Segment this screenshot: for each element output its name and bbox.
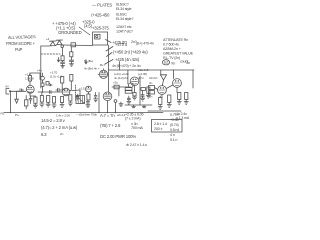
svg-text:+4n: +4n	[37, 69, 42, 73]
ground	[61, 64, 65, 68]
note: all voltages from scope	[6, 34, 50, 52]
svg-text:(4.7)= 2 + 2 mA (u.w): (4.7)= 2 + 2 mA (u.w)	[41, 125, 78, 130]
resistor R8 plate V2	[61, 77, 64, 84]
svg-text:12AT7 etc?: 12AT7 etc?	[116, 30, 133, 34]
wire jack ground drop	[9, 91, 11, 112]
note: bias block	[138, 68, 149, 80]
note: top middle voltages	[52, 21, 82, 35]
svg-text:2n: 2n	[149, 95, 153, 99]
svg-text:6L6GC: 6L6GC	[116, 13, 127, 17]
resistor R6	[47, 96, 50, 103]
svg-text:⊕ 2.47 ± 1.4 u: ⊕ 2.47 ± 1.4 u	[126, 143, 147, 147]
resistor R3 plate load	[29, 76, 32, 81]
wire V3 down	[88, 92, 90, 94]
svg-text:+4: +4	[46, 37, 50, 41]
svg-text:EL34 style: EL34 style	[116, 7, 132, 11]
svg-text:6.3: 6.3	[41, 132, 47, 137]
arrow to box	[106, 47, 113, 52]
svg-text:AZ/MA 2n +: AZ/MA 2n +	[163, 47, 181, 51]
wire B+ vertical left	[40, 46, 42, 88]
note: B+ wire label	[112, 61, 190, 68]
resistor R21	[61, 56, 64, 61]
pentode V5	[103, 92, 112, 101]
wire from loop down	[107, 45, 109, 92]
node dot	[96, 36, 98, 38]
svg-text:Xn: Xn	[171, 62, 175, 66]
svg-text:12AX7 etc: 12AX7 etc	[116, 25, 132, 29]
ground	[33, 103, 37, 108]
ground	[127, 100, 131, 104]
wire to V7	[155, 88, 158, 90]
node junction	[61, 45, 64, 48]
ground	[86, 103, 90, 108]
wire V8 cathode	[176, 87, 178, 92]
wire V4 plate stub	[107, 73, 110, 75]
feedback loop box	[93, 32, 108, 45]
resistor R13 grid stopper	[114, 85, 119, 89]
diode D2	[56, 40, 62, 45]
triode V6a small	[129, 83, 134, 88]
capacitor C21	[69, 57, 73, 62]
resistor R12	[87, 94, 90, 100]
svg-text:+470 ±: +470 ±	[115, 42, 128, 47]
ground	[52, 103, 56, 108]
wire B+ top rail	[41, 45, 93, 46]
arrow to wire	[105, 53, 113, 65]
note: +475 OG pointer	[112, 40, 137, 45]
wire to driver	[72, 90, 80, 96]
resistor R24	[168, 95, 171, 103]
wire box to bus	[98, 93, 100, 113]
wire filter tap 1	[62, 48, 64, 56]
wire V1b down	[38, 86, 62, 92]
svg-text:4n (B+) 4n +: 4n (B+) 4n +	[84, 67, 100, 71]
ground	[46, 102, 50, 107]
resistor R27 grid stopper 2	[125, 91, 132, 94]
note: left col right cluster	[149, 76, 158, 85]
note: +325 top	[82, 20, 95, 29]
wire V6 vertical	[139, 76, 141, 105]
dashed divider wire	[75, 85, 77, 101]
svg-text:6L6GC?: 6L6GC?	[116, 3, 129, 7]
svg-text:0.7-500 4u: 0.7-500 4u	[163, 43, 179, 47]
resistor R22	[70, 52, 73, 57]
svg-text:4n: 4n	[186, 61, 190, 65]
triode V8	[173, 79, 182, 88]
ground	[70, 62, 74, 67]
ground	[184, 100, 188, 105]
wire R9 down	[70, 81, 72, 91]
ground under mid bus	[132, 105, 136, 108]
svg-text:0.7 n+: 0.7 n+	[170, 113, 179, 117]
svg-text:FROM SCOPE +: FROM SCOPE +	[6, 41, 36, 46]
resistor R16	[141, 88, 146, 91]
svg-text:0.5 n4: 0.5 n4	[170, 128, 179, 132]
svg-text:(B+) 470-4n: (B+) 470-4n	[136, 42, 154, 46]
svg-text:GREATEST VALUE: GREATEST VALUE	[163, 52, 194, 56]
svg-text:PuP: PuP	[15, 47, 23, 52]
input jack J1	[6, 89, 9, 95]
svg-text:+0.35: +0.35	[170, 118, 179, 122]
svg-text:2n: 2n	[60, 132, 64, 136]
note: plates legend row3	[92, 25, 133, 34]
svg-text:GROUNDED: GROUNDED	[58, 30, 82, 35]
note: bottom left measurements	[41, 118, 78, 137]
capacitor C20	[61, 61, 65, 64]
wire arrow from note to rail	[79, 27, 90, 35]
wire R5 stub	[41, 92, 43, 96]
svg-text:4n: 4n	[149, 81, 153, 85]
wire R1 drop	[16, 91, 18, 99]
svg-text:+325-375: +325-375	[92, 26, 109, 31]
lamp V1b	[41, 76, 45, 80]
triode V2	[62, 88, 70, 96]
svg-text:4 n: 4 n	[170, 133, 175, 137]
triode V1a	[26, 85, 34, 93]
svg-text:⟨+425-450: ⟨+425-450	[91, 13, 110, 18]
resistor R4 cathode	[34, 97, 37, 103]
wire stub up	[119, 62, 121, 71]
resistor R17	[147, 87, 150, 93]
capacitor C3	[50, 91, 51, 94]
resistor R11	[69, 95, 72, 101]
wire R2 stub	[25, 96, 27, 110]
node dot on grid wire	[17, 91, 18, 92]
arrow to loop box	[106, 40, 112, 43]
ground	[146, 93, 150, 98]
capacitor C1 bypass	[29, 96, 32, 104]
wire filter tap 2	[70, 47, 72, 52]
resistor R18	[149, 86, 155, 90]
output transformer T1	[76, 96, 85, 104]
svg-text:(+450 2n) (+420 4u): (+450 2n) (+420 4u)	[113, 50, 148, 55]
capacitor C10 scribble	[56, 88, 63, 91]
wire V1a cathode	[30, 94, 35, 97]
wire plate to coupling	[30, 73, 40, 80]
oval around EZ	[162, 60, 169, 65]
note: B+ chain row1	[115, 42, 154, 48]
ground	[158, 105, 162, 110]
ground	[40, 102, 44, 107]
note: V1 voltages	[25, 73, 34, 81]
resistor R23 in loop	[95, 34, 100, 39]
capacitor C8	[141, 90, 144, 96]
wire V7 cathode	[160, 94, 162, 97]
svg-text:(7B) 7 + 2.8: (7B) 7 + 2.8	[100, 123, 121, 128]
note: +1.5 label	[79, 87, 85, 91]
resistor R5b	[41, 83, 44, 86]
resistor R10	[61, 97, 64, 103]
resistor R26	[185, 93, 188, 100]
svg-text:+425 (4n 42s): +425 (4n 42s)	[115, 57, 140, 62]
wire drop from B+	[127, 70, 129, 84]
capacitor C9 marks on wire	[20, 89, 23, 92]
resistor R19	[159, 98, 162, 105]
wire grid row to V6	[112, 86, 131, 88]
box around spec	[152, 120, 183, 133]
note: V4 labels	[100, 63, 129, 85]
svg-text:14.5-2 = 2.8 v: 14.5-2 = 2.8 v	[41, 118, 66, 123]
note: bus small labels	[1, 112, 190, 120]
capacitor C7	[127, 96, 130, 100]
resistor R25	[178, 93, 181, 100]
wire V5 to bus	[107, 101, 109, 113]
svg-text:+1.5: +1.5	[79, 87, 85, 91]
wire bus drop a	[118, 88, 120, 96]
capacitor C2 coupling	[46, 82, 49, 86]
resistor R28	[149, 91, 155, 94]
note: stage2 voltages	[37, 69, 62, 79]
resistor R20 on rail	[71, 43, 76, 47]
svg-text:4.7 n: 4.7 n	[138, 76, 145, 80]
capacitor C4	[76, 94, 79, 100]
resistor R9 plate V2b	[70, 75, 73, 82]
svg-text:ATTENUATE Rn: ATTENUATE Rn	[163, 38, 188, 42]
note: plates legend row2	[91, 13, 133, 22]
wire V6 cathode	[134, 86, 136, 93]
ground arrow right	[85, 60, 87, 64]
svg-text:0.1 n: 0.1 n	[170, 138, 177, 142]
note: B+ chain row3	[115, 57, 140, 62]
svg-text:ALL VOLTAGES: ALL VOLTAGES	[8, 34, 36, 40]
node dots on bus	[98, 112, 99, 113]
wire input to V1 grid	[10, 90, 26, 92]
note: plates legend row1	[92, 3, 132, 12]
capacitor C6	[94, 93, 97, 97]
svg-text:GN 1h: GN 1h	[149, 76, 158, 80]
ground arrow left	[57, 58, 59, 62]
shield dashed wire	[41, 53, 60, 55]
svg-text:(7 ± 2 mA): (7 ± 2 mA)	[125, 117, 140, 121]
ground	[141, 96, 145, 101]
resistor R14 grid stopper	[125, 88, 132, 91]
wire V1a plate	[29, 81, 31, 85]
svg-text:2.8 ± 1.4: 2.8 ± 1.4	[154, 122, 167, 126]
ground	[68, 101, 72, 106]
svg-text:4n (B+470) + 2n 4n: 4n (B+470) + 2n 4n	[112, 64, 141, 68]
svg-text:(5.74): (5.74)	[170, 123, 179, 127]
ground	[132, 96, 136, 100]
wire B+ plate rail right	[108, 69, 194, 71]
svg-text:IN: IN	[6, 85, 9, 89]
wire drop to V8	[172, 70, 174, 79]
svg-text:EL34 style?: EL34 style?	[116, 17, 133, 21]
triode V6	[130, 77, 139, 86]
triode V7	[158, 86, 167, 95]
ground	[94, 97, 98, 102]
svg-text:4n (4.2) 2n: 4n (4.2) 2n	[114, 76, 128, 80]
wire V7-V8 link	[166, 85, 173, 89]
wire right edge drop	[192, 70, 194, 88]
node circle small	[114, 100, 117, 103]
ground mid	[119, 102, 123, 107]
diode D1	[50, 41, 57, 46]
wire drop to triangle	[160, 70, 162, 75]
svg-text:B+?: B+?	[100, 63, 106, 67]
note: bottom right column	[170, 113, 179, 142]
svg-text:A.7 = 7n: A.7 = 7n	[100, 113, 115, 118]
svg-text:—(2n) then 700n: —(2n) then 700n	[76, 113, 97, 117]
resistor R15	[133, 93, 136, 96]
note: bottom mid measurements	[100, 113, 147, 148]
svg-text:Pu.: Pu.	[15, 113, 19, 117]
wire node stub	[115, 102, 117, 112]
capacitor C5	[86, 100, 89, 103]
svg-text:+2s: +2s	[113, 81, 118, 85]
note 5n B+	[84, 59, 100, 71]
ground	[60, 103, 64, 108]
resistor R2	[25, 100, 28, 106]
ground	[167, 103, 171, 108]
wire mid bus	[125, 104, 152, 106]
svg-text:R2: R2	[1, 112, 5, 116]
triode V3 driver	[86, 86, 92, 92]
svg-text:700 mA: 700 mA	[131, 126, 143, 130]
wire triangle to V7	[162, 80, 163, 86]
ground under mid bus 2	[142, 105, 146, 108]
svg-text:— PLATES: — PLATES	[92, 3, 112, 8]
resistor R5	[40, 96, 43, 103]
wire ground bus	[4, 112, 163, 114]
phase marker triangle	[160, 75, 166, 80]
svg-text:1.5/0.8: 1.5/0.8	[25, 77, 34, 81]
svg-text:5n (B+): 5n (B+)	[84, 59, 93, 63]
ground arrow	[15, 99, 19, 103]
note: B+ chain row2	[113, 50, 148, 55]
svg-text:200 ±: 200 ±	[154, 127, 162, 131]
resistor R7	[53, 97, 56, 104]
wire R8 to V2	[62, 83, 64, 90]
wire bus segment right	[148, 110, 181, 112]
svg-text:DC 2.00 PWR 100%: DC 2.00 PWR 100%	[100, 134, 136, 139]
pentode V4	[99, 70, 107, 78]
svg-text:1.4s + 2.00: 1.4s + 2.00	[56, 114, 70, 118]
note: right instructions block	[163, 38, 194, 65]
ground	[177, 100, 181, 105]
